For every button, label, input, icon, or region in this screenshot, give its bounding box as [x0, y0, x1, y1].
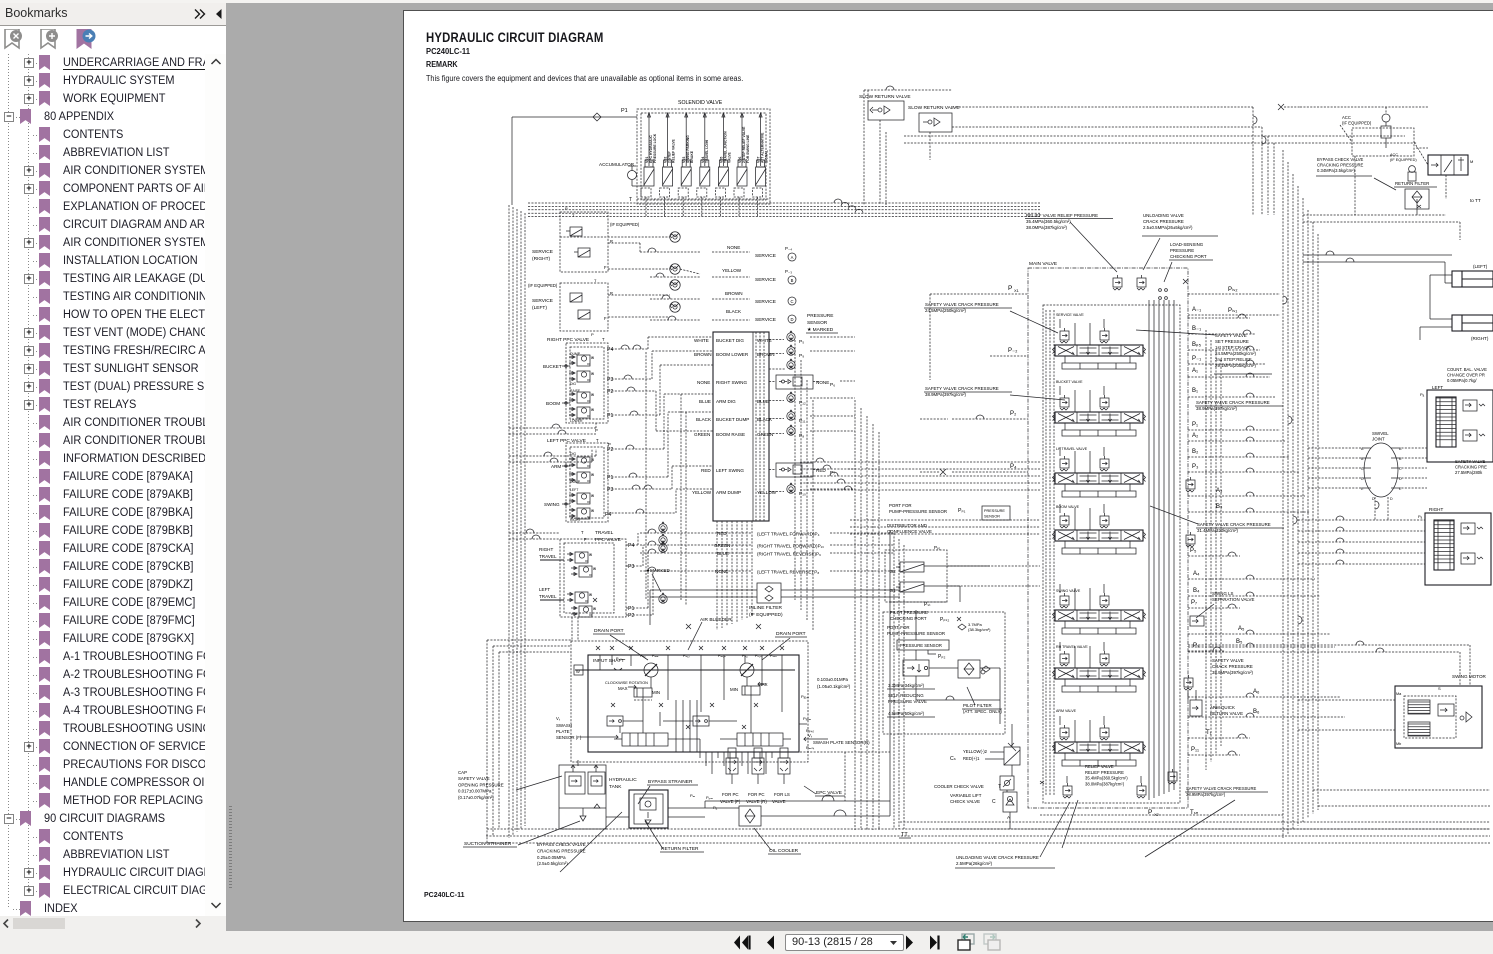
main valve annotation relief — [1025, 213, 1117, 272]
port CN labels — [950, 749, 1004, 762]
safety valve note set pressure — [1136, 330, 1272, 374]
safety valve symbol right c — [1184, 675, 1193, 700]
pump rotation label — [605, 681, 768, 695]
cooler check valve symbol — [1000, 776, 1014, 790]
bottom toolbar — [0, 931, 1493, 954]
travel ppc valve enclosure — [560, 539, 626, 617]
wire left ppc pump feed — [509, 449, 596, 462]
junction table divider — [752, 332, 754, 521]
main valve relief valve 1 — [1113, 275, 1122, 290]
pump right port labels — [799, 694, 815, 750]
swash plate sensor front label — [556, 716, 618, 740]
breather symbol 4 — [670, 302, 680, 312]
page header text — [426, 30, 603, 45]
wire P1 feed line — [512, 113, 637, 205]
wire travel rows feed — [626, 533, 653, 615]
main valve section rh travel valve — [1053, 642, 1146, 692]
wire right ppc P2 — [608, 387, 713, 431]
pump front regulator — [614, 733, 668, 746]
solenoid valve block title — [678, 100, 723, 106]
ppc element arm dump — [569, 472, 594, 483]
wire travel row green — [640, 533, 824, 548]
boom cylinder right — [1452, 315, 1493, 331]
self reducing valve symbol — [903, 660, 929, 676]
service valve (left) label — [532, 298, 553, 311]
wire bucket-dig row — [694, 330, 804, 345]
tank cap valve right — [588, 765, 605, 794]
main valve bottom relief 2 — [1137, 776, 1146, 798]
pump front servo valve — [634, 688, 652, 700]
swing ls separation valve label — [1196, 591, 1254, 618]
safety valve note e — [1212, 658, 1254, 675]
pump rear regulator — [737, 733, 791, 746]
acc label 1 — [1342, 115, 1372, 126]
wire left vertical bus — [509, 205, 525, 838]
main valve annotation load sensing — [1164, 242, 1213, 282]
ppc element arm dig — [569, 457, 594, 468]
return filter right symbol — [1405, 189, 1429, 209]
wire left ppc P1 — [608, 412, 713, 477]
right ppc valve bucket port — [543, 352, 581, 386]
pump front circle — [644, 663, 658, 677]
port Ps8323; wire — [1188, 464, 1300, 472]
wire travel ppc feed — [509, 529, 560, 539]
wire left ppc P4 — [608, 489, 713, 513]
counterbalance note — [1447, 367, 1487, 383]
safety valve note d — [1150, 506, 1284, 533]
wire pilot area — [890, 566, 1000, 724]
epc feed wires — [700, 752, 772, 774]
wire service D row — [608, 316, 750, 320]
inline filter — [757, 583, 781, 603]
wire table vertical drops — [717, 521, 752, 630]
breather symbol 2 — [670, 264, 680, 274]
wire acc lines — [1300, 107, 1428, 215]
breather symbol 1 — [670, 232, 680, 242]
solenoid valve S2 — [890, 562, 936, 574]
wire table risers — [756, 332, 764, 521]
oil cooler symbol — [739, 806, 761, 826]
wire left column down bundle — [855, 400, 879, 830]
main valve internal riser lines — [1149, 300, 1174, 800]
wire boom cylinder feed — [1303, 251, 1452, 340]
wire right vertical bundle — [1283, 150, 1318, 838]
pump small valve right — [693, 716, 709, 726]
tank cap valve left — [565, 760, 585, 794]
self reducing valve labels — [887, 683, 935, 717]
pump crossing X marks — [593, 598, 784, 729]
pump port labels top — [616, 654, 777, 661]
left ppc valve title — [547, 438, 611, 447]
pilot filter symbol — [958, 660, 990, 678]
left ppc valve swing port — [544, 488, 581, 522]
port Bs8321; wire — [1188, 388, 1275, 397]
boom cylinder left — [1452, 271, 1493, 287]
solenoid valve V01 — [641, 113, 657, 217]
safety valve note a — [924, 302, 1058, 333]
port Ps8343;s8347;s8321; wire — [1188, 308, 1280, 315]
main valve section swing valve — [1053, 584, 1146, 634]
solenoid valve V05 — [715, 113, 731, 217]
service port D labels — [726, 309, 796, 323]
solenoid valve V06 — [734, 113, 750, 217]
service valve (right) enclosure — [560, 206, 640, 272]
ppc element bucket dig — [569, 371, 594, 382]
ppc element boom raise — [569, 392, 594, 403]
wire top right bus — [868, 90, 1417, 215]
wire sensor column verticals — [795, 340, 813, 630]
wire travel row none — [640, 567, 819, 575]
slow return valve 2 label — [908, 105, 960, 111]
ppc element swing right — [569, 508, 594, 519]
wire arm-dump row — [692, 482, 806, 497]
solenoid valve block enclosure — [637, 109, 770, 204]
safety valve leader bottom — [1062, 800, 1235, 857]
swivel joint body — [1361, 443, 1402, 497]
service valve (right) label — [532, 249, 553, 262]
oil cooler label — [754, 828, 801, 854]
drain port left label — [593, 628, 648, 660]
acc enclosure — [1352, 128, 1414, 156]
ppc element swing left — [569, 493, 594, 504]
wire left-swing row — [701, 463, 835, 477]
wire boom-lower row — [694, 344, 804, 359]
pump rear circle — [740, 663, 754, 677]
right travel motor label — [1418, 507, 1443, 519]
wire ppc drop verticals — [646, 352, 686, 605]
safety valve note bottom right — [1185, 786, 1268, 797]
port P-2 — [990, 348, 1028, 356]
solenoid valve S1 — [890, 582, 936, 593]
wire distributor feeds right — [916, 566, 1040, 640]
pilot pressure checking port label — [890, 610, 961, 623]
epc valve title — [804, 786, 845, 796]
slow return valve 1 — [868, 101, 904, 120]
wire ppc pump feed — [509, 423, 598, 434]
port Ts8321; wire — [1188, 730, 1250, 738]
port ST label — [924, 602, 931, 608]
wire swivel joint feeds — [1308, 448, 1427, 488]
ppc element boom lower — [569, 407, 594, 418]
port Ps8321; wire — [1188, 422, 1280, 430]
port As8323; wire — [1188, 488, 1305, 496]
main valve bottom relief 1 — [1063, 776, 1072, 798]
node P1 label — [621, 108, 628, 114]
right ppc valve title — [547, 337, 605, 343]
breather symbol 3 — [670, 280, 680, 290]
wire top horizontal bus to main valve — [528, 203, 1040, 217]
service valve (right) solenoid b — [574, 248, 590, 257]
acc label 2 — [1390, 153, 1417, 181]
main valve bottom relief 3 — [1168, 769, 1177, 784]
return filter assembly — [629, 790, 668, 828]
slow return valve 1 label — [859, 94, 911, 100]
wire right bundle to bottom — [1313, 790, 1490, 806]
wire right ppc P3 — [608, 351, 713, 379]
swing motor label — [1438, 674, 1487, 691]
port As8321; wire — [1188, 368, 1270, 377]
ppc element travel right rev — [571, 566, 596, 577]
wire mid bus group a — [800, 458, 1040, 490]
ppc element travel left rev — [571, 606, 596, 617]
main valve title — [1029, 261, 1057, 267]
unloading valve note bottom — [955, 802, 1070, 868]
port PX2 — [1148, 809, 1199, 817]
main valve relief valve 2 — [1137, 275, 1146, 290]
port Ps8327; wire — [1188, 600, 1240, 608]
pilot valve area enclosure — [883, 612, 1005, 734]
ppc element travel left fwd — [567, 592, 592, 603]
port As8322; wire — [1188, 433, 1285, 441]
wire right-swing row — [697, 375, 835, 389]
left ppc valve arm port — [551, 452, 581, 484]
return filter right label — [1394, 181, 1437, 187]
wire right bundle hops — [1283, 296, 1302, 624]
variable lift check valve symbol — [1003, 792, 1017, 820]
arm quick return valve symbol — [1190, 690, 1202, 716]
port Ps8325; wire — [1188, 548, 1240, 556]
wire travel drain to pump — [572, 617, 578, 641]
travel ppc right travel port — [539, 547, 564, 560]
main valve section bucket valve — [1053, 380, 1146, 436]
port Bs8325; wire — [1188, 639, 1335, 647]
wire sensor row stubs — [810, 337, 855, 489]
right ppc valve enclosure — [566, 343, 608, 423]
wire boom-raise row — [694, 424, 804, 439]
left ppc ports — [605, 447, 613, 518]
left travel motor — [1427, 390, 1493, 462]
epc valve group — [726, 748, 790, 784]
service valve (left) solenoid b — [578, 310, 590, 319]
wire travel row red — [640, 521, 820, 536]
port P4 — [920, 464, 1028, 475]
ppc element bucket dump — [569, 355, 594, 366]
port Bs8326; wire — [1188, 709, 1345, 717]
travel ppc valve title — [581, 530, 621, 543]
safety valve symbol right a — [1186, 477, 1195, 492]
port for pump pressure sensor label 2 — [887, 625, 945, 636]
right ppc ports — [607, 347, 613, 419]
node T drain — [629, 197, 770, 203]
pump pressure note — [817, 677, 851, 689]
distributor label — [887, 523, 932, 534]
slow return valve 2 — [919, 113, 952, 132]
wire bus hops — [834, 199, 863, 213]
suction strainer label — [463, 821, 580, 847]
port As8326; wire — [1188, 689, 1340, 697]
right travel motor — [1425, 513, 1491, 585]
bypass check valve note right — [1316, 157, 1396, 190]
wire top left slow return feed — [864, 86, 952, 205]
port PP2 label — [928, 650, 945, 660]
pressure sensor box 1 — [982, 506, 1010, 520]
to TT label — [1446, 175, 1481, 203]
cap safety valve note upper — [458, 770, 562, 800]
right ppc valve boom port — [546, 389, 583, 423]
service valve (left) solenoid a — [570, 293, 582, 302]
pump enclosure outer — [571, 641, 808, 762]
junction table frame — [713, 332, 769, 521]
travel ppc ports — [628, 543, 634, 619]
hydraulic tank label — [609, 777, 637, 790]
port As8325; wire — [1188, 626, 1330, 634]
variable lift check valve label — [950, 793, 996, 805]
wire left ppc P2 — [608, 394, 713, 449]
inline filter label — [749, 605, 783, 618]
wire left ppc P3 — [608, 466, 713, 489]
service valve (right) solenoid a — [566, 227, 582, 236]
accumulator 1 — [1381, 114, 1391, 148]
drain port right label — [762, 631, 807, 660]
epc feed labels — [690, 793, 718, 810]
wire check valve cluster — [1007, 724, 1044, 829]
wire service C row — [608, 295, 750, 299]
port As8331;s8321; wire — [1188, 307, 1250, 318]
travel marked note — [646, 568, 670, 603]
solenoid valve V07 — [753, 113, 769, 217]
wire travel to distributor verticals — [894, 533, 904, 829]
left ppc valve enclosure — [566, 443, 608, 522]
accumulator charge valve — [1004, 743, 1020, 765]
safety valve symbol right b — [1186, 532, 1195, 547]
pilot relief note — [958, 622, 991, 632]
return filter label — [645, 821, 704, 852]
swing motor body — [1395, 686, 1482, 748]
relief valve note bottom — [1085, 764, 1128, 786]
accumulator symbol — [628, 166, 645, 186]
port Bs8324; wire — [1188, 588, 1320, 596]
bypass strainer label — [638, 779, 698, 804]
port Ps8329; wire — [1188, 643, 1225, 651]
safety valve note c — [1195, 400, 1283, 411]
ppc element travel right fwd — [567, 552, 592, 563]
pressure sensor box 2 — [897, 640, 949, 650]
wire swivel to right motor — [1298, 516, 1425, 564]
accumulator label — [599, 162, 635, 167]
wire bottom boundary lines — [485, 640, 1490, 843]
travel speed solenoid valve — [1428, 155, 1473, 175]
port As8324; wire — [1188, 571, 1315, 579]
pilot filter label — [962, 687, 1002, 714]
wire mid bus group b — [850, 520, 1040, 534]
bypass check valve note — [537, 812, 622, 872]
pump input shaft label — [593, 658, 624, 664]
pump small valve left — [607, 716, 623, 726]
load sensing port — [1159, 279, 1188, 299]
safety valve note b — [924, 386, 1065, 400]
solenoid valve V04 — [697, 113, 710, 217]
wire right ppc P1 — [608, 365, 713, 415]
port for pump pressure sensor label 1 — [889, 503, 966, 514]
swing ls separation valve symbol — [1190, 616, 1204, 626]
pressure sensor spare — [769, 358, 795, 369]
service port B labels — [722, 268, 796, 284]
safety valve note travel — [1455, 459, 1487, 475]
boom cylinder left label — [1473, 264, 1488, 269]
arm quick return valve label — [1210, 705, 1243, 716]
wire travel row blue — [640, 541, 821, 556]
pump internal wires — [600, 655, 782, 752]
wire cooler bypass line — [705, 795, 890, 808]
pressure sensor legend — [806, 313, 838, 333]
port Ps8331;s8321; wire — [1188, 356, 1265, 364]
wire right ppc P4 — [608, 337, 713, 349]
solenoid valve V02 — [660, 113, 676, 217]
wire epc to main valve bottom — [800, 752, 890, 801]
boom cylinder right label — [1471, 336, 1489, 341]
port Ps8321;s8321; wire — [1188, 747, 1240, 755]
hydraulic tank body — [559, 765, 606, 829]
wire swivel joint bottom D — [1372, 497, 1393, 520]
port P2 — [920, 411, 1028, 419]
wire main valve right vertical routing — [1206, 330, 1221, 770]
service valve (left) enclosure — [528, 278, 613, 337]
port Bs8346;s8325; wire — [1188, 342, 1260, 350]
left travel motor label — [1420, 385, 1443, 397]
main valve section service valve — [1053, 313, 1146, 369]
port Ps8343;s8347;s8322; wire — [1188, 287, 1280, 294]
port Bs8323; wire — [1188, 504, 1310, 512]
wire inline filter runs — [650, 590, 900, 625]
port Bs8331;s8321; wire — [1188, 326, 1255, 334]
pump drive shaft — [574, 665, 795, 675]
solenoid valve V03 — [678, 113, 694, 217]
wire to TT runs — [1303, 156, 1460, 240]
wire bucket-dump row — [696, 409, 806, 424]
pump rear servo valve — [742, 686, 760, 695]
wire arm-dig row — [699, 391, 806, 406]
service port A labels — [727, 245, 796, 261]
swash plate sensor rear label — [804, 733, 870, 745]
swivel joint label — [1372, 431, 1389, 442]
pump enclosure — [588, 655, 799, 752]
wire bottom right runs — [900, 815, 1490, 829]
port Bs8322; wire — [1188, 449, 1290, 457]
air bleeder label — [686, 617, 761, 650]
main valve section lh travel valve — [1053, 447, 1146, 497]
node TT bottom — [899, 832, 911, 838]
wire service A row — [560, 237, 750, 252]
cooler check valve label — [934, 784, 1001, 790]
main valve annotation unloading — [1142, 213, 1218, 270]
travel ppc left travel port — [539, 587, 564, 600]
wire swing motor feeds — [1188, 641, 1470, 730]
port PX1 — [930, 285, 1028, 380]
wire return lines — [606, 530, 890, 817]
wire service B row — [608, 269, 750, 277]
wire travel rows extension — [830, 533, 894, 571]
service port C labels — [725, 291, 796, 305]
main valve section arm valve — [1053, 709, 1146, 766]
epc valve labels — [720, 792, 790, 804]
main valve enclosure — [1028, 268, 1188, 808]
main valve section boom valve — [1053, 504, 1146, 554]
sidebar — [0, 3, 226, 26]
main valve left riser lines — [1046, 310, 1054, 795]
distributor enclosure — [885, 545, 947, 602]
